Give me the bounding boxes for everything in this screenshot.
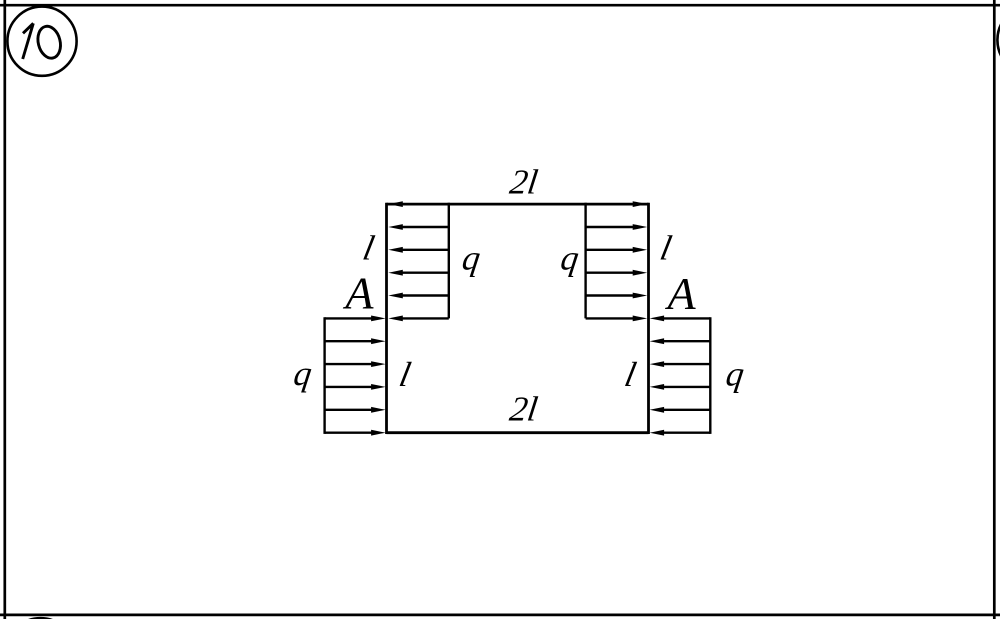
upper-left load arrows (388, 201, 449, 321)
partial circle of adjacent cell right (997, 5, 1000, 74)
lower-right load block edge (709, 317, 711, 434)
lower-right load arrows (650, 316, 711, 436)
border frame right vertical line (993, 0, 996, 619)
border frame top horizontal line (0, 4, 1000, 7)
lower-left load arrows (325, 316, 386, 436)
partial circle of adjacent cell bottom (6, 618, 75, 619)
svg-text:2l: 2l (507, 390, 540, 429)
problem number 10 digit 1 (23, 23, 34, 59)
problem number 10 digit 0 (35, 24, 64, 61)
svg-text:A: A (664, 268, 696, 319)
upper-right load arrows (586, 201, 648, 321)
problem number circle (7, 7, 76, 76)
svg-text:2l: 2l (507, 163, 540, 202)
lower-left load block edge (323, 317, 325, 434)
frame right column (647, 203, 650, 434)
svg-text:A: A (342, 268, 374, 319)
upper-right load block edge (584, 203, 586, 319)
frame top beam (387, 203, 649, 206)
upper-left load block edge (448, 203, 450, 319)
border frame bottom horizontal line (0, 614, 1000, 617)
frame left column (385, 203, 388, 434)
border frame left vertical line (3, 0, 6, 619)
frame bottom beam (387, 431, 649, 434)
